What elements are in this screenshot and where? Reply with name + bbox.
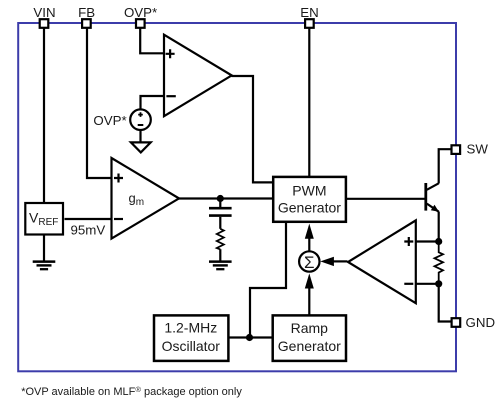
pin SW: [452, 145, 461, 154]
block Ramp Generator: [273, 315, 346, 361]
wire cap to comp resistor: [219, 217, 221, 229]
wire PWM Generator to oscillator net: [250, 223, 286, 338]
svg-text:SW: SW: [467, 142, 489, 157]
resistor sense R2: [435, 242, 444, 284]
svg-text:Ramp: Ramp: [291, 320, 329, 336]
svg-text:Generator: Generator: [278, 200, 341, 216]
ground compensation: [209, 262, 232, 270]
node sense - junction: [435, 280, 442, 287]
summer sigma: [299, 251, 319, 271]
pin GND: [452, 318, 461, 327]
svg-text:EN: EN: [300, 5, 318, 20]
svg-text:1.2-MHz: 1.2-MHz: [164, 320, 217, 336]
wire VIN vertical to VREF: [43, 22, 45, 204]
svg-text:*OVP available on MLF® package: *OVP available on MLF® package option on…: [21, 385, 242, 398]
wire EN vertical to PWM Generator: [308, 22, 310, 176]
svg-text:Oscillator: Oscillator: [162, 338, 221, 354]
wire comparator + input: [416, 240, 439, 242]
current source OVP*: [130, 109, 151, 130]
wire OVP source to ground: [139, 130, 141, 143]
arrow summer to PWM: [308, 238, 310, 252]
svg-text:Σ: Σ: [304, 253, 315, 272]
svg-text:GND: GND: [466, 315, 496, 330]
block PWM Generator: [273, 177, 346, 222]
svg-text:95mV: 95mV: [71, 223, 106, 238]
wire FB to gm + input: [87, 22, 112, 178]
wire oscillator to ramp generator: [228, 336, 272, 338]
wire VREF to ground: [43, 235, 45, 261]
block VREF: [25, 203, 63, 235]
op-amp U1 OVP comparator: [164, 35, 232, 117]
wire collector to SW pin: [439, 149, 452, 183]
wire comparator - input: [416, 283, 439, 285]
svg-text:OVP*: OVP*: [93, 113, 126, 128]
node oscillator output junction: [246, 334, 253, 341]
node sense + junction: [435, 238, 442, 245]
wire PWM output to transistor base: [346, 198, 426, 200]
wire OVP* pin to comparator + input: [140, 22, 164, 53]
capacitor compensation C1: [209, 208, 232, 215]
svg-text:FB: FB: [78, 5, 95, 20]
pin VIN: [40, 19, 49, 28]
resistor compensation R1: [217, 229, 224, 250]
block 1.2-MHz Oscillator: [154, 315, 228, 361]
wire emitter to sense node: [438, 212, 440, 242]
op-amp U3 current comparator: [348, 220, 416, 303]
op-amp U2 gm error amplifier: [112, 158, 180, 239]
svg-text:PWM: PWM: [292, 182, 326, 198]
arrow ramp to summer: [308, 287, 310, 316]
svg-text:OVP*: OVP*: [124, 5, 157, 20]
ground VREF: [33, 262, 56, 270]
svg-text:VIN: VIN: [33, 5, 55, 20]
wire OVP comparator output to PWM Generator: [232, 76, 273, 182]
wire gm output to PWM Generator: [179, 197, 273, 199]
wire VREF to gm - input: [65, 218, 112, 220]
arrow comparator to summer: [333, 260, 348, 262]
wire comp resistor to ground: [219, 249, 221, 260]
wire gm output to compensation cap: [219, 199, 221, 208]
wire OVP source to comparator - input: [141, 96, 165, 110]
IC boundary border: [18, 23, 456, 371]
transistor Q1: [426, 183, 439, 212]
pin FB: [82, 19, 91, 28]
pin EN: [305, 19, 314, 28]
node comp network junction: [217, 195, 224, 202]
wire sense node to GND pin: [439, 284, 452, 322]
svg-text:Generator: Generator: [278, 338, 341, 354]
ground OVP (open triangle): [131, 142, 151, 152]
pin OVP*: [136, 19, 145, 28]
